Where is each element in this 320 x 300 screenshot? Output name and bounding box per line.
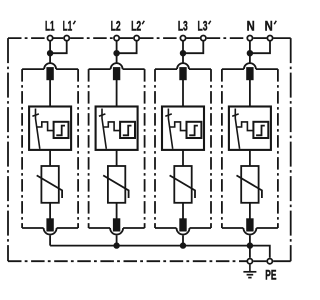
svg-text:L3: L3 [198, 20, 208, 34]
svg-text:N: N [247, 19, 255, 34]
svg-text:L1: L1 [63, 20, 73, 35]
svg-text:PE: PE [265, 269, 276, 284]
svg-text:L2: L2 [131, 19, 141, 35]
svg-text:N: N [265, 19, 273, 34]
svg-text:L3: L3 [178, 20, 188, 34]
svg-text:L1: L1 [45, 20, 55, 35]
svg-text:L2: L2 [111, 19, 121, 35]
